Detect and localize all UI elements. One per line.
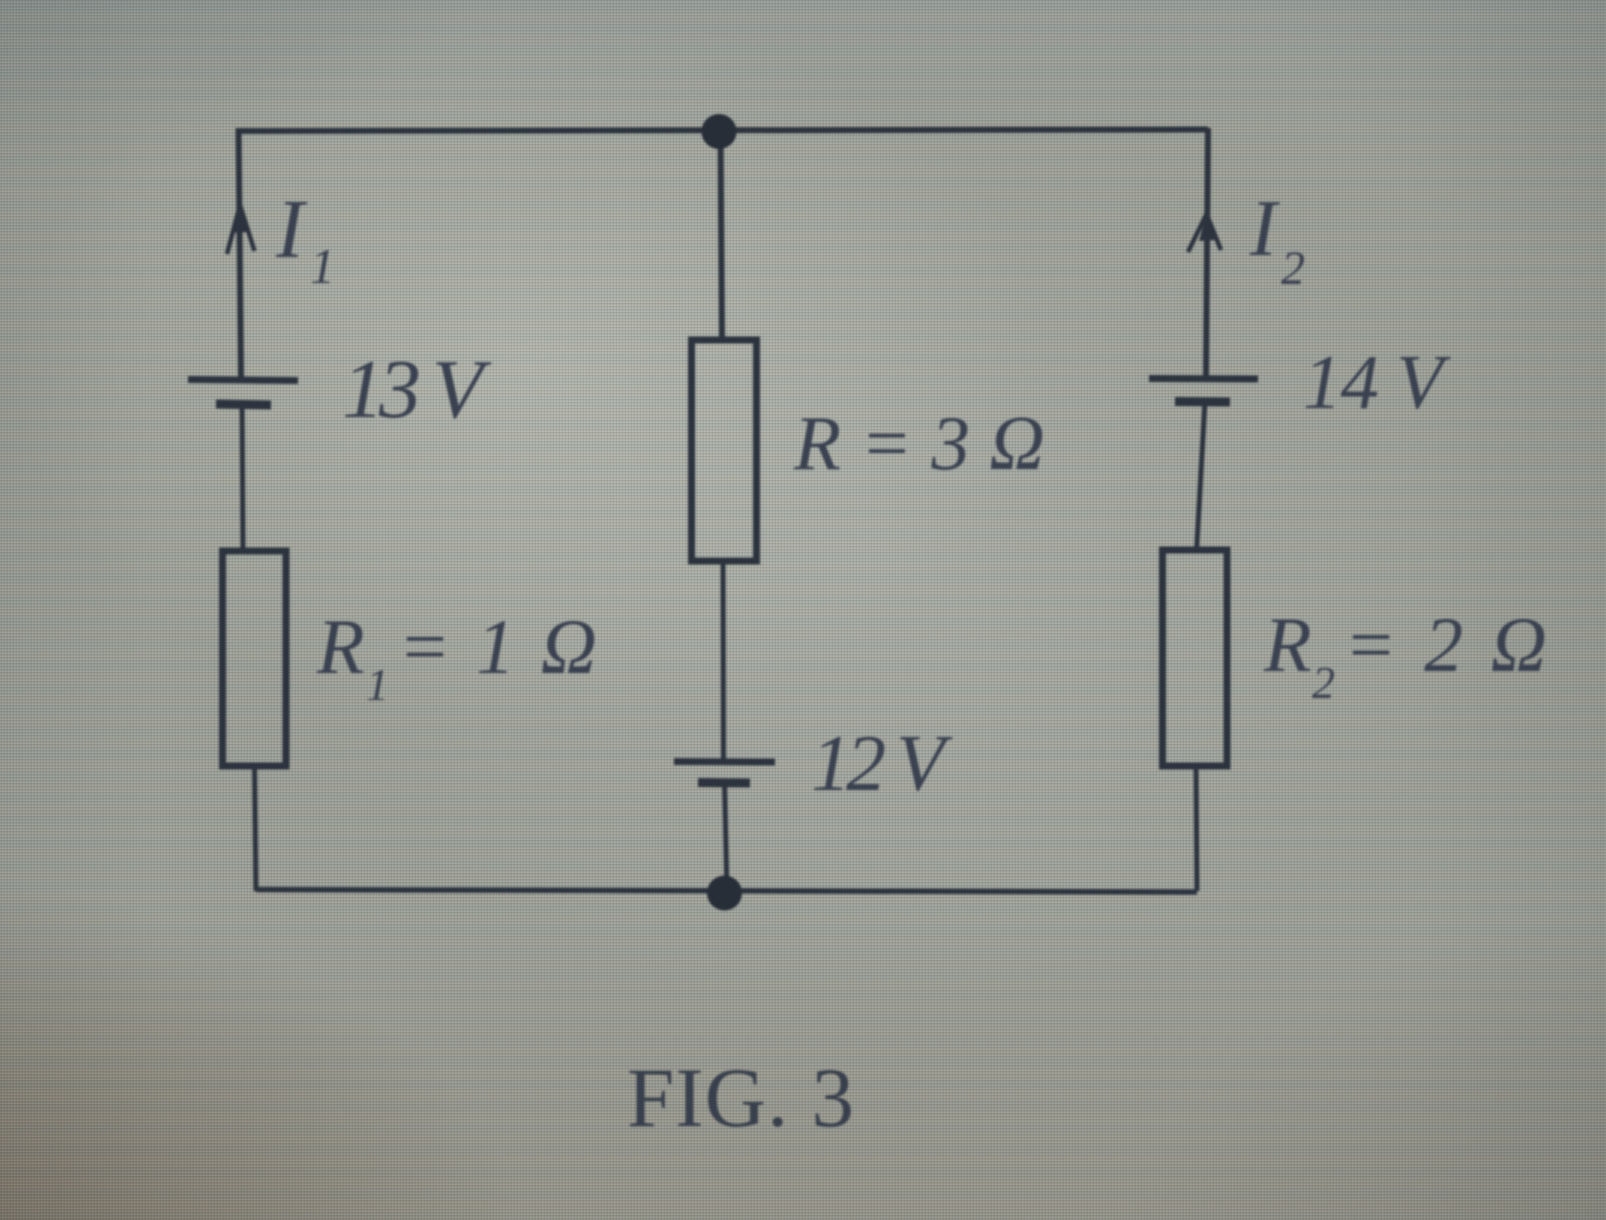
- wire left battery to resistor R1: [242, 405, 243, 553]
- svg-text:14 V: 14 V: [1303, 339, 1451, 425]
- junction node top: [702, 114, 737, 149]
- svg-text:I: I: [275, 183, 308, 276]
- svg-text:2: 2: [1312, 657, 1335, 708]
- svg-text:12 V: 12 V: [811, 720, 953, 808]
- label I1: [275, 183, 335, 294]
- svg-text:R: R: [316, 603, 365, 690]
- wire middle battery 12V to bottom junction: [725, 782, 728, 891]
- wire right resistor R2 to bottom: [1196, 764, 1197, 891]
- wire bottom horizontal: [256, 890, 1197, 893]
- wire right vertical upper: [1206, 128, 1208, 377]
- wire left vertical upper: [239, 128, 242, 377]
- svg-text:13 V: 13 V: [342, 343, 492, 436]
- svg-text:2: 2: [1281, 242, 1305, 295]
- svg-text:1: 1: [310, 238, 335, 294]
- wire middle junction to resistor R: [721, 128, 723, 342]
- label R2 = 2 ohm: [1263, 601, 1551, 708]
- wire middle resistor R to battery 12V: [721, 559, 727, 760]
- resistor R1: [223, 551, 287, 766]
- svg-text:= 2 Ω: = 2 Ω: [1344, 601, 1551, 688]
- resistor R: [692, 340, 757, 561]
- battery B3 14V: [1149, 379, 1258, 403]
- wire right battery 14V to resistor R2: [1197, 401, 1206, 552]
- resistor R2: [1163, 550, 1228, 766]
- battery B2 12V: [674, 762, 775, 784]
- arrow I1 head: [227, 204, 255, 254]
- svg-text:= 1 Ω: = 1 Ω: [398, 603, 600, 690]
- svg-text:1: 1: [366, 659, 389, 710]
- battery B1 13V: [188, 380, 298, 406]
- wire top horizontal: [236, 130, 1208, 132]
- arrow I2 head: [1188, 213, 1221, 252]
- svg-text:R = 3 Ω: R = 3 Ω: [793, 400, 1045, 486]
- label R1 = 1 ohm: [316, 603, 600, 710]
- svg-text:R: R: [1263, 601, 1312, 688]
- junction node bottom: [707, 876, 742, 911]
- svg-text:FIG. 3: FIG. 3: [627, 1051, 855, 1145]
- svg-text:I: I: [1249, 185, 1280, 273]
- wire left resistor R1 to bottom: [255, 764, 257, 891]
- label I2: [1249, 185, 1305, 295]
